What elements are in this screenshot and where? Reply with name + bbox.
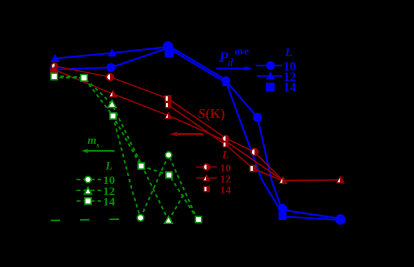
green open circle marker (140.5,218) <box>137 215 144 222</box>
svg-text:14: 14 <box>220 185 232 197</box>
green m_s curves group <box>53 76 198 221</box>
blue circle marker (54,69.5) <box>50 65 58 73</box>
blue marker cluster (226,81) <box>222 76 231 85</box>
red half square marker (168,98.5) <box>165 95 172 102</box>
red half triangle marker (113,94) <box>109 90 118 98</box>
blue bundle line lower (peak to mid) <box>170 49 227 83</box>
red half triangle marker (283,180.5) <box>279 176 288 184</box>
blue arrow pointing right <box>216 66 252 70</box>
svg-text:S(K): S(K) <box>198 106 225 121</box>
blue bottom line lower <box>283 217 341 221</box>
blue circle marker (283,208.5) <box>278 204 287 213</box>
blue triangle marker (112,53) <box>108 49 117 57</box>
red half square marker (253,168.5) <box>249 165 257 173</box>
red arrow pointing left <box>170 132 203 137</box>
green L=10 spike dashed line <box>141 155 199 221</box>
blue legend row 10 <box>256 60 296 74</box>
green open square marker (113,116) <box>110 113 116 119</box>
red half circle marker (110,77) <box>106 73 114 81</box>
svg-text:L: L <box>221 150 229 162</box>
blue P_d^ave curves group <box>54 46 341 221</box>
green open square marker (54,76.5) <box>51 73 58 80</box>
red half circle marker (254.5,152) <box>250 148 258 156</box>
blue square marker peak (169,53) <box>165 49 174 58</box>
red half circle marker (225.5,138.5) <box>222 135 230 143</box>
blue circle marker (340.5,219.5) <box>335 214 345 224</box>
red cluster markers left <box>50 62 58 74</box>
svg-text:14: 14 <box>103 195 115 209</box>
green open square marker (141,166) <box>138 163 144 169</box>
green open square marker (198,220) <box>195 216 201 222</box>
red triangle series line <box>54 70 341 181</box>
svg-text:L: L <box>105 161 113 173</box>
red legend row 10 <box>196 163 232 175</box>
blue line mid to bottom via circle <box>226 81 282 209</box>
red legend row 14 <box>203 185 231 197</box>
blue L=12 triangle series line <box>55 47 167 59</box>
green open square marker (84,79) <box>81 75 88 82</box>
green L=12 triangle series dashed line <box>54 76 169 221</box>
svg-text:ave: ave <box>235 47 249 58</box>
blue bundle line upper (peak to mid) <box>168 46 226 81</box>
blue legend row 12 <box>257 70 296 84</box>
green legend row 10 <box>77 173 116 187</box>
svg-text:14: 14 <box>284 81 297 95</box>
blue legend row 14 <box>266 81 297 95</box>
blue L=10 circle series rising line <box>54 48 168 70</box>
red S(K) curves group <box>54 66 341 181</box>
red half triangle marker (340.5,180) <box>336 176 345 184</box>
blue steep line mid to bottom <box>226 82 282 213</box>
green label m_s <box>88 135 100 150</box>
green L=14 square series dashed line <box>53 78 198 221</box>
green legend row 12 <box>77 184 116 198</box>
svg-text:m: m <box>88 135 97 147</box>
blue square marker (283,215.5) <box>279 212 287 220</box>
blue triangle marker (55,58.5) <box>51 54 60 62</box>
blue circle marker (256,118) <box>253 113 262 122</box>
red half triangle marker (168.5,115.5) <box>164 112 172 119</box>
blue label P_d^ave <box>219 47 249 70</box>
blue circle marker (111,67.5) <box>107 63 116 72</box>
red half square marker (225.5,144.5) <box>223 142 229 148</box>
red half square marker (168,105) <box>165 102 172 109</box>
green L=10 sparse horizontal dashed line <box>51 219 138 221</box>
red circle series line <box>54 66 283 181</box>
green open circle marker (168.6,156) <box>165 152 171 158</box>
green stub after triangle <box>169 194 185 221</box>
green open square marker (169,176) <box>166 172 172 178</box>
red square series line <box>168 105 283 181</box>
svg-text:s: s <box>96 141 100 150</box>
red legend row 12 <box>196 174 232 186</box>
green L=10 drop into circle <box>113 116 141 218</box>
green legend row 14 <box>77 195 116 209</box>
green arrow pointing left <box>82 149 115 153</box>
green open triangle marker (112,104) <box>108 100 116 107</box>
svg-text:L: L <box>284 45 292 59</box>
green open triangle marker (168.5,220.5) <box>165 216 173 223</box>
blue bottom line upper <box>283 210 340 219</box>
blue circle marker peak (168,46) <box>163 41 173 51</box>
